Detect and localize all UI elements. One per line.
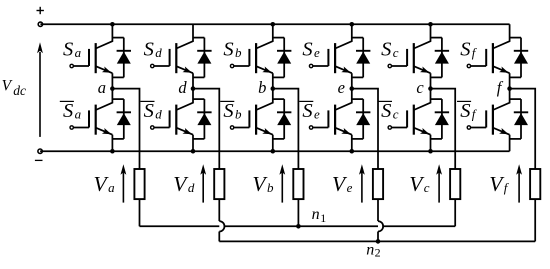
gate terminal S_b	[230, 64, 233, 67]
diode Df2	[514, 99, 528, 139]
svg-text:a: a	[75, 45, 82, 60]
label S_c	[381, 39, 399, 61]
svg-text:d: d	[188, 180, 195, 195]
IGBT Sbar_f gate bar	[485, 110, 487, 127]
svg-text:S: S	[460, 100, 470, 122]
IGBT S_a body bar	[95, 43, 97, 73]
IGBT Sbar_e emitter	[335, 128, 352, 135]
svg-text:e: e	[338, 78, 345, 97]
label node b	[258, 78, 266, 97]
wire phase d output	[193, 89, 219, 169]
wire collector S_a bar (lower)	[96, 89, 113, 110]
label node f	[497, 78, 504, 97]
svg-text:V: V	[2, 77, 13, 94]
node c	[428, 86, 433, 91]
junction top rail leg b	[271, 22, 276, 27]
IGBT S_d gate bar	[169, 49, 171, 66]
IGBT S_c gate bar	[406, 49, 408, 66]
wire diode Df1 top branch	[510, 37, 521, 39]
wire gate Sbar_b	[234, 127, 249, 129]
svg-text:d: d	[155, 107, 162, 122]
label S_b	[223, 39, 242, 61]
IGBT Sbar_a emitter	[96, 128, 113, 135]
wire resistor c to bus	[454, 199, 456, 226]
svg-text:S: S	[223, 100, 233, 122]
wire collector S_d	[176, 24, 193, 48]
svg-text:n: n	[366, 241, 374, 258]
IGBT S_f gate bar	[485, 49, 487, 66]
IGBT Sbar_e body bar	[334, 105, 336, 135]
wire emitter S_d to node d	[192, 73, 194, 88]
junction top rail leg e	[350, 22, 355, 27]
IGBT S_d emitter	[176, 66, 193, 73]
label Vb	[252, 172, 274, 196]
voltage arrow Vb	[279, 164, 285, 202]
wire collector S_a	[96, 24, 113, 48]
wire emitter Sbar_b to bottom rail	[272, 135, 274, 152]
diode Db1	[277, 38, 291, 78]
voltage arrow Vc	[436, 164, 442, 202]
wire phase b output	[273, 89, 299, 169]
wire emitter Sbar_e to bottom rail	[351, 135, 353, 152]
gate terminal S_a	[70, 64, 73, 67]
wire diode Dc2 anode branch	[431, 138, 442, 140]
svg-text:S: S	[381, 39, 391, 61]
gate terminal Sbar_c	[388, 126, 391, 129]
wire diode Df1 anode branch	[510, 76, 521, 78]
wire diode Dc1 anode branch	[431, 76, 442, 78]
wire collector S_b	[256, 24, 273, 48]
label node a	[98, 78, 106, 97]
diode Da2	[117, 99, 131, 139]
wire emitter S_b to node b	[272, 73, 274, 88]
wire resistor a to bus	[139, 199, 141, 226]
wire collector S_f bar (lower)	[493, 89, 510, 110]
IGBT S_c body bar	[413, 43, 415, 73]
svg-text:d: d	[178, 78, 187, 97]
IGBT Sbar_a gate bar	[88, 110, 90, 127]
DC positive terminal	[38, 22, 42, 26]
svg-text:b: b	[235, 45, 242, 60]
IGBT Sbar_f emitter	[493, 128, 510, 135]
label Sbar_c	[378, 100, 399, 122]
gate terminal S_c	[388, 64, 391, 67]
wire resistor d to n2 (upper part)	[218, 199, 220, 221]
svg-text:S: S	[144, 39, 154, 61]
resistor load c	[450, 169, 460, 199]
diode Df1	[514, 38, 528, 78]
IGBT S_c emitter	[414, 66, 431, 73]
junction top rail leg a	[110, 22, 115, 27]
wire diode Da1 top branch	[112, 37, 123, 39]
wire resistor b to bus	[297, 199, 299, 226]
crossover hop e over n1	[378, 221, 383, 231]
wire phase c output	[431, 89, 456, 169]
wire gate Sbar_e	[313, 127, 328, 129]
wire gate S_e	[313, 65, 328, 67]
junction n1 phase b	[296, 224, 301, 229]
wire diode Da2 top branch	[112, 98, 123, 100]
plus terminal symbol	[37, 7, 44, 14]
svg-text:dc: dc	[13, 83, 26, 98]
wire gate S_f	[471, 65, 486, 67]
diode Dc2	[435, 99, 449, 139]
wire diode Dc1 top branch	[431, 37, 442, 39]
wire phase e output	[352, 89, 378, 169]
IGBT Sbar_f body bar	[492, 105, 494, 135]
svg-text:S: S	[302, 39, 312, 61]
gate terminal Sbar_f	[467, 126, 470, 129]
label S_a	[63, 39, 82, 61]
gate terminal S_e	[309, 64, 312, 67]
IGBT S_b gate bar	[248, 49, 250, 66]
label Vc	[409, 172, 430, 196]
wire resistor f to bus	[534, 199, 536, 241]
resistor load a	[134, 169, 144, 199]
wire gate Sbar_f	[471, 127, 486, 129]
junction n2 phase e	[376, 239, 381, 244]
svg-text:e: e	[347, 180, 353, 195]
wire emitter S_f to node f	[509, 73, 511, 88]
wire diode De2 anode branch	[352, 138, 363, 140]
wire resistor e to n2 (lower part)	[377, 232, 379, 242]
wire emitter Sbar_c to bottom rail	[430, 135, 432, 152]
diode Db2	[277, 99, 291, 139]
IGBT Sbar_b emitter	[256, 128, 273, 135]
wire diode De1 top branch	[352, 37, 363, 39]
wire collector S_d bar (lower)	[176, 89, 193, 110]
DC negative terminal	[38, 149, 42, 153]
wire collector S_c bar (lower)	[414, 89, 431, 110]
svg-text:S: S	[381, 100, 391, 122]
svg-text:S: S	[302, 100, 312, 122]
label Vd	[173, 172, 195, 196]
wire collector S_b bar (lower)	[256, 89, 273, 110]
wire gate S_d	[154, 65, 169, 67]
crossover hop d over n1	[219, 221, 224, 231]
svg-text:e: e	[314, 45, 320, 60]
diode Dd2	[197, 99, 211, 139]
voltage arrow Vf	[516, 164, 522, 202]
svg-text:2: 2	[375, 246, 381, 260]
IGBT S_b emitter	[256, 66, 273, 73]
wire diode Db2 anode branch	[273, 138, 284, 140]
IGBT Sbar_c gate bar	[406, 110, 408, 127]
wire phase a output	[112, 89, 139, 169]
voltage arrow Vd	[200, 164, 206, 202]
label Sbar_f	[457, 100, 478, 122]
label Sbar_b	[220, 100, 242, 122]
IGBT S_d body bar	[175, 43, 177, 73]
diode Da1	[117, 38, 131, 78]
IGBT S_b body bar	[255, 43, 257, 73]
gate terminal Sbar_b	[230, 126, 233, 129]
wire resistor d to n2 (lower part)	[218, 232, 220, 242]
svg-text:b: b	[258, 78, 266, 97]
minus terminal symbol	[35, 159, 43, 161]
IGBT S_f body bar	[492, 43, 494, 73]
wire phase f output	[510, 89, 536, 169]
IGBT S_a gate bar	[88, 49, 90, 66]
IGBT Sbar_d emitter	[176, 128, 193, 135]
wire diode Dd2 anode branch	[193, 138, 204, 140]
junction bottom rail leg e	[350, 149, 355, 154]
svg-text:n: n	[312, 206, 320, 223]
gate terminal Sbar_e	[309, 126, 312, 129]
svg-text:1: 1	[320, 211, 326, 225]
svg-text:c: c	[416, 78, 424, 97]
gate terminal S_d	[151, 64, 154, 67]
label Vf	[489, 172, 510, 196]
IGBT Sbar_c emitter	[414, 128, 431, 135]
label S_e	[302, 39, 320, 61]
wire emitter S_a to node a	[111, 73, 113, 88]
IGBT Sbar_b gate bar	[248, 110, 250, 127]
label node d	[178, 78, 187, 97]
wire gate Sbar_d	[154, 127, 169, 129]
svg-text:b: b	[267, 180, 274, 195]
junction bottom rail leg a	[110, 149, 115, 154]
gate terminal S_f	[467, 64, 470, 67]
wire gate Sbar_a	[74, 127, 89, 129]
gate terminal Sbar_d	[151, 126, 154, 129]
junction bottom rail leg c	[428, 149, 433, 154]
svg-text:a: a	[98, 78, 106, 97]
junction bottom rail leg d	[191, 149, 196, 154]
svg-text:S: S	[63, 100, 73, 122]
bottom DC rail wire	[40, 150, 510, 152]
svg-text:S: S	[460, 39, 470, 61]
label Ve	[332, 172, 353, 196]
wire emitter S_c to node c	[430, 73, 432, 88]
svg-text:c: c	[393, 107, 399, 122]
wire collector S_e bar (lower)	[335, 89, 352, 110]
wire bus n2	[219, 240, 535, 242]
IGBT S_a emitter	[96, 66, 113, 73]
svg-text:b: b	[235, 107, 242, 122]
junction bottom rail leg b	[271, 149, 276, 154]
label S_d	[144, 39, 163, 61]
wire collector S_c	[414, 24, 431, 48]
IGBT S_e body bar	[334, 43, 336, 73]
label n1	[312, 206, 327, 225]
wire diode Dc2 top branch	[431, 98, 442, 100]
node a	[110, 86, 115, 91]
svg-text:a: a	[75, 107, 82, 122]
resistor load e	[373, 169, 383, 199]
IGBT Sbar_e gate bar	[327, 110, 329, 127]
gate terminal Sbar_a	[70, 126, 73, 129]
wire emitter Sbar_d to bottom rail	[192, 135, 194, 152]
label Sbar_e	[299, 100, 320, 122]
label S_f	[460, 39, 478, 61]
node d	[191, 86, 196, 91]
wire emitter Sbar_f to bottom rail	[509, 135, 511, 152]
IGBT Sbar_d body bar	[175, 105, 177, 135]
svg-text:S: S	[63, 39, 73, 61]
wire diode Da1 anode branch	[112, 76, 123, 78]
wire diode Db1 anode branch	[273, 76, 284, 78]
wire diode Df2 top branch	[510, 98, 521, 100]
diode Dc1	[435, 38, 449, 78]
resistor load d	[214, 169, 224, 199]
label node e	[338, 78, 345, 97]
IGBT Sbar_d gate bar	[169, 110, 171, 127]
label Vdc	[2, 77, 26, 98]
wire collector S_f	[493, 24, 510, 48]
IGBT S_e gate bar	[327, 49, 329, 66]
svg-text:a: a	[108, 180, 115, 195]
label node c	[416, 78, 424, 97]
wire resistor e to n2 (upper part)	[377, 199, 379, 221]
wire emitter S_e to node e	[351, 73, 353, 88]
wire gate S_a	[74, 65, 89, 67]
node e	[350, 86, 355, 91]
IGBT S_f emitter	[493, 66, 510, 73]
IGBT Sbar_a body bar	[95, 105, 97, 135]
wire diode De1 anode branch	[352, 76, 363, 78]
node f	[507, 86, 512, 91]
wire gate S_b	[234, 65, 249, 67]
junction top rail leg c	[428, 22, 433, 27]
IGBT S_e emitter	[335, 66, 352, 73]
diode Dd1	[197, 38, 211, 78]
wire emitter Sbar_a to bottom rail	[111, 135, 113, 152]
top DC rail wire	[40, 23, 509, 25]
wire bus n1	[140, 225, 456, 227]
svg-text:S: S	[223, 39, 233, 61]
wire collector S_e	[335, 24, 352, 48]
wire gate Sbar_c	[392, 127, 407, 129]
wire diode Da2 anode branch	[112, 138, 123, 140]
voltage arrow Va	[121, 164, 127, 202]
label Sbar_a	[60, 100, 82, 122]
svg-text:c: c	[424, 180, 430, 195]
resistor load b	[293, 169, 303, 199]
wire diode Dd1 anode branch	[193, 76, 204, 78]
wire diode Db1 top branch	[273, 37, 284, 39]
voltage arrow Ve	[359, 164, 365, 202]
svg-text:c: c	[393, 45, 399, 60]
wire diode Dd1 top branch	[193, 37, 204, 39]
diode De2	[356, 99, 370, 139]
wire diode De2 top branch	[352, 98, 363, 100]
svg-text:d: d	[155, 45, 162, 60]
wire gate S_c	[392, 65, 407, 67]
Vdc source arrow	[37, 42, 43, 137]
node b	[271, 86, 276, 91]
svg-text:S: S	[144, 100, 154, 122]
IGBT Sbar_b body bar	[255, 105, 257, 135]
label n2	[366, 241, 380, 259]
diode De1	[356, 38, 370, 78]
resistor load f	[530, 169, 540, 199]
svg-text:e: e	[314, 107, 320, 122]
wire diode Df2 anode branch	[510, 138, 521, 140]
wire diode Db2 top branch	[273, 98, 284, 100]
IGBT Sbar_c body bar	[413, 105, 415, 135]
label Va	[94, 172, 116, 196]
label Sbar_d	[140, 100, 162, 122]
wire diode Dd2 top branch	[193, 98, 204, 100]
